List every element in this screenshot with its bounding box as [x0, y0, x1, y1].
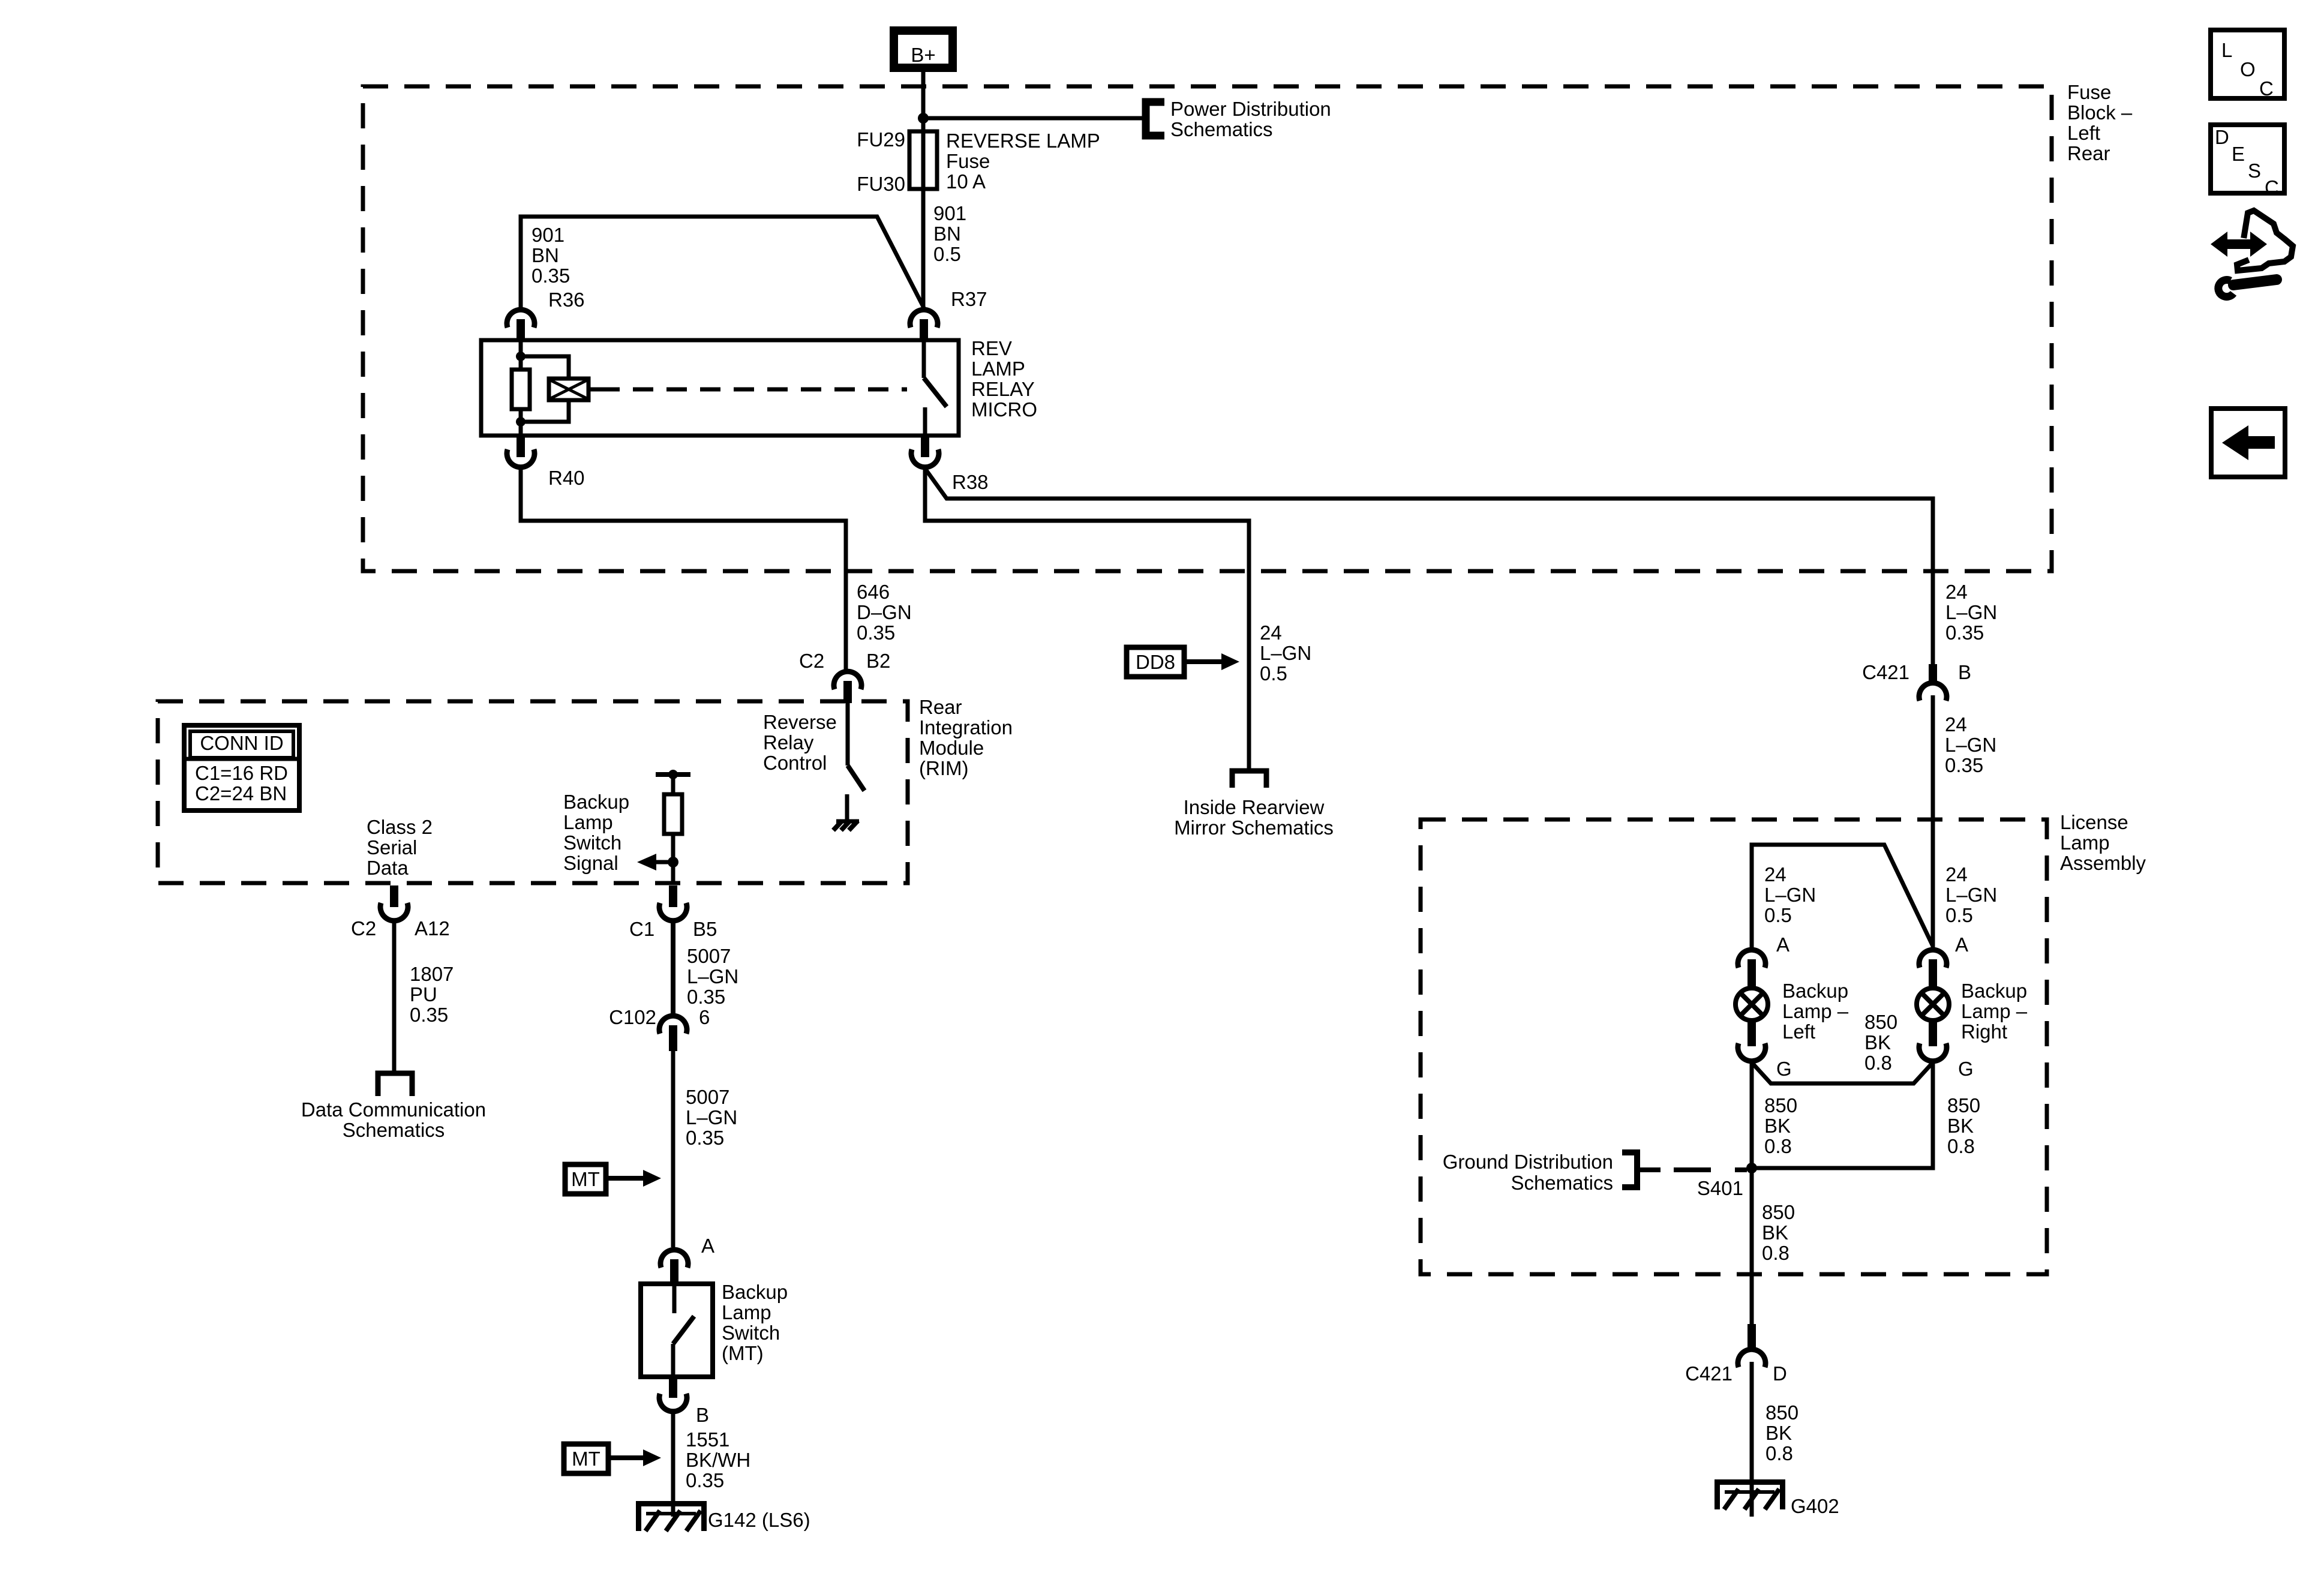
svg-text:B5: B5	[693, 918, 717, 940]
icon LOC	[2211, 30, 2284, 100]
svg-text:0.8: 0.8	[1762, 1242, 1789, 1264]
svg-text:D: D	[1773, 1362, 1787, 1385]
connector C1 B5	[659, 885, 687, 921]
svg-text:L–GN: L–GN	[1945, 601, 1997, 623]
svg-text:A: A	[1955, 933, 1968, 956]
svg-text:A: A	[701, 1235, 714, 1257]
label wire 1551 BK/WH 0.35	[686, 1428, 750, 1491]
svg-text:Fuse: Fuse	[2067, 81, 2111, 103]
svg-text:(MT): (MT)	[722, 1342, 764, 1364]
svg-text:Control: Control	[763, 752, 827, 774]
label pin A left lamp	[1776, 933, 1789, 956]
svg-text:0.35: 0.35	[1945, 754, 1983, 776]
label conn id	[200, 732, 283, 754]
svg-text:Lamp: Lamp	[563, 811, 613, 833]
label wire 5007 L-GN 0.35 pin 6	[687, 945, 738, 1028]
label wire 901 BN 0.35	[532, 224, 570, 287]
svg-text:MICRO: MICRO	[971, 398, 1037, 421]
svg-text:B: B	[696, 1404, 709, 1426]
svg-text:0.5: 0.5	[1945, 904, 1973, 926]
svg-text:L–GN: L–GN	[1260, 642, 1311, 664]
RIM chassis ground	[833, 821, 859, 830]
wire C421 B down to right lamp	[1931, 695, 1935, 947]
dashed link to S401	[1674, 1167, 1747, 1172]
RIM reverse relay control switch	[847, 703, 864, 821]
svg-text:0.8: 0.8	[1764, 1135, 1792, 1157]
svg-text:Block –: Block –	[2067, 101, 2133, 124]
svg-text:O: O	[2240, 58, 2256, 80]
connector C2 A12	[380, 885, 408, 921]
connector A backup lamp switch	[660, 1250, 688, 1284]
RIM pull-up wire upper	[671, 775, 675, 794]
wire B to ground G142	[671, 1413, 675, 1517]
off-page bracket inside rearview mirror	[1232, 771, 1266, 788]
label pin G left	[1776, 1058, 1792, 1080]
label wire 850 BK 0.8 right	[1947, 1094, 1980, 1157]
label backup lamp left	[1782, 980, 1849, 1043]
splice S401	[1746, 1163, 1757, 1173]
label R36	[548, 289, 585, 311]
svg-text:DD8: DD8	[1136, 651, 1175, 673]
svg-text:Power Distribution: Power Distribution	[1170, 98, 1331, 120]
label wire 850 BK 0.8 bottom	[1765, 1401, 1798, 1464]
label class 2 serial data	[367, 816, 433, 879]
svg-text:1551: 1551	[686, 1428, 729, 1451]
svg-text:B+: B+	[911, 44, 935, 66]
svg-text:REV: REV	[971, 337, 1012, 359]
svg-text:Lamp –: Lamp –	[1961, 1000, 2028, 1022]
svg-text:Left: Left	[2067, 122, 2100, 144]
label wire 24 L-GN 0.5 left	[1764, 863, 1816, 926]
label wire 5007 L-GN 0.35	[686, 1086, 737, 1149]
svg-text:Switch: Switch	[563, 831, 621, 854]
svg-text:0.35: 0.35	[532, 265, 570, 287]
wire C421 D to ground G402	[1750, 1362, 1754, 1517]
label wire 850 BK 0.8 left	[1764, 1094, 1797, 1157]
junction dot at B+ feed	[918, 113, 929, 124]
connector R36	[507, 310, 535, 341]
svg-text:S401: S401	[1697, 1177, 1743, 1199]
label data communication schematics	[301, 1098, 486, 1141]
RIM pull-up rail bar	[656, 772, 690, 777]
svg-text:FU30: FU30	[857, 173, 905, 195]
svg-text:Schematics: Schematics	[1511, 1172, 1613, 1194]
svg-text:BK: BK	[1864, 1031, 1891, 1053]
svg-text:L–GN: L–GN	[686, 1106, 737, 1128]
icon vehicle outline	[2237, 211, 2293, 271]
connector C421 B	[1919, 664, 1947, 701]
svg-text:Backup: Backup	[722, 1281, 788, 1303]
label A12	[415, 917, 450, 939]
svg-text:Ground Distribution: Ground Distribution	[1443, 1151, 1613, 1173]
label C2 at A12	[351, 917, 376, 939]
label C421 D names	[1685, 1362, 1787, 1385]
svg-text:0.5: 0.5	[1764, 904, 1792, 926]
label wire 850 BK 0.8 splice	[1762, 1201, 1795, 1264]
label backup lamp switch signal	[563, 791, 629, 874]
svg-text:Inside Rearview: Inside Rearview	[1184, 796, 1325, 818]
reference box MT upper	[565, 1164, 661, 1194]
RIM signal junction dot	[668, 857, 678, 867]
off-page bracket data communication	[378, 1073, 412, 1096]
svg-text:Reverse: Reverse	[763, 711, 837, 733]
svg-text:Assembly: Assembly	[2060, 852, 2146, 874]
svg-text:Right: Right	[1961, 1020, 2007, 1043]
svg-text:L: L	[2221, 39, 2232, 61]
label REV LAMP RELAY MICRO	[971, 337, 1037, 421]
svg-text:E: E	[2232, 143, 2245, 165]
wire B5 to C102	[671, 922, 675, 1014]
icon DESC	[2211, 125, 2284, 199]
svg-text:Mirror Schematics: Mirror Schematics	[1174, 816, 1334, 839]
label pin B	[696, 1404, 709, 1426]
label G142 (LS6)	[708, 1509, 810, 1531]
svg-text:A: A	[1776, 933, 1789, 956]
svg-text:901: 901	[532, 224, 565, 246]
connector G left lamp	[1738, 1021, 1765, 1061]
svg-text:L–GN: L–GN	[1764, 884, 1816, 906]
svg-text:G142 (LS6): G142 (LS6)	[708, 1509, 810, 1531]
fuse block - left rear dashed box	[363, 86, 2052, 571]
svg-text:C: C	[2259, 77, 2274, 100]
svg-text:Switch: Switch	[722, 1322, 780, 1344]
relay coil branch wires	[521, 356, 569, 422]
off-page bracket power distribution	[1146, 102, 1164, 136]
label fuse block - left rear	[2067, 81, 2133, 164]
svg-text:A12: A12	[415, 917, 450, 939]
rear integration module dashed box	[158, 701, 908, 883]
svg-text:R38: R38	[952, 471, 989, 493]
ground G402	[1715, 1479, 1785, 1509]
svg-text:Backup: Backup	[563, 791, 629, 813]
label R40	[548, 467, 585, 489]
svg-text:0.35: 0.35	[687, 986, 725, 1008]
svg-text:850: 850	[1764, 1094, 1797, 1116]
svg-text:MT: MT	[572, 1448, 600, 1470]
svg-text:850: 850	[1864, 1011, 1897, 1033]
svg-text:C1=16 RD: C1=16 RD	[195, 762, 288, 784]
label rear integration module (RIM)	[919, 696, 1013, 779]
connector R37	[910, 310, 938, 341]
svg-text:C2=24 BN: C2=24 BN	[195, 782, 287, 804]
label C421 B names	[1862, 661, 1971, 683]
svg-text:850: 850	[1762, 1201, 1795, 1223]
svg-text:Left: Left	[1782, 1020, 1815, 1043]
svg-text:Class 2: Class 2	[367, 816, 433, 838]
svg-text:MT: MT	[571, 1168, 600, 1190]
svg-text:0.35: 0.35	[410, 1004, 448, 1026]
svg-text:0.35: 0.35	[686, 1127, 724, 1149]
label wire 24 L-GN 0.35 upper	[1945, 581, 1997, 644]
svg-text:C421: C421	[1862, 661, 1909, 683]
wire R38 to rearview mirror feed	[925, 469, 1249, 769]
label wire 850 BK 0.8 mid	[1864, 1011, 1897, 1074]
label license lamp assembly	[2060, 811, 2146, 874]
license lamp assembly dashed box	[1421, 819, 2047, 1274]
svg-text:R40: R40	[548, 467, 585, 489]
connector B backup lamp switch	[659, 1377, 687, 1412]
label B5	[693, 918, 717, 940]
svg-text:Rear: Rear	[2067, 142, 2110, 164]
svg-text:S: S	[2248, 160, 2261, 182]
connector C421 D	[1738, 1324, 1765, 1367]
icon wrench	[2218, 280, 2277, 297]
label power distribution schematics	[1170, 98, 1331, 140]
svg-text:LAMP: LAMP	[971, 358, 1025, 380]
label pin A right lamp	[1955, 933, 1968, 956]
relay resistor	[512, 370, 530, 409]
svg-text:0.5: 0.5	[1260, 662, 1287, 685]
svg-text:24: 24	[1945, 863, 1968, 885]
label wire 24 L-GN 0.5 right	[1945, 863, 1997, 926]
backup lamp switch box	[641, 1284, 713, 1377]
relay internal wire from R36 pin	[519, 340, 523, 370]
svg-text:Lamp: Lamp	[722, 1301, 771, 1323]
RIM pull-up resistor	[664, 794, 682, 834]
backup lamp right	[1917, 988, 1949, 1020]
connector C2 B2	[834, 671, 861, 703]
svg-text:C2: C2	[799, 650, 824, 672]
label pin G right	[1958, 1058, 1974, 1080]
label FU29	[857, 128, 905, 151]
wire left lamp ground drop	[1750, 1062, 1754, 1168]
svg-text:B2: B2	[866, 650, 890, 672]
svg-text:D: D	[2215, 126, 2229, 148]
relay internal wire resistor to bottom	[519, 409, 523, 436]
backup lamp left	[1736, 988, 1768, 1020]
svg-text:Serial: Serial	[367, 836, 417, 858]
svg-text:(RIM): (RIM)	[919, 757, 968, 779]
wire branch to left backup lamp	[1752, 845, 1933, 947]
conn id table	[184, 725, 299, 810]
svg-text:L–GN: L–GN	[1945, 884, 1997, 906]
svg-text:0.8: 0.8	[1765, 1442, 1793, 1464]
connector A left lamp	[1738, 950, 1765, 987]
svg-text:0.8: 0.8	[1947, 1135, 1975, 1157]
svg-text:C: C	[2265, 176, 2279, 199]
svg-text:6: 6	[699, 1006, 710, 1028]
label c2=24 bn	[195, 782, 287, 804]
wire R40 to connector B2	[521, 469, 846, 670]
svg-text:5007: 5007	[687, 945, 731, 967]
label backup lamp switch (MT)	[722, 1281, 788, 1364]
icon vehicle double arrow	[2211, 232, 2267, 257]
fuse FU29/FU30 REVERSE LAMP 10A	[909, 131, 937, 189]
label wire 646 D-GN 0.35	[857, 581, 912, 644]
svg-text:646: 646	[857, 581, 890, 603]
wire lamp ground tie	[1752, 1062, 1933, 1083]
svg-text:24: 24	[1945, 581, 1968, 603]
connector C102	[659, 1016, 687, 1051]
label ground distribution schematics	[1443, 1151, 1613, 1194]
wire C102 to switch pin A	[671, 1051, 675, 1247]
svg-text:0.35: 0.35	[857, 622, 895, 644]
label R37	[951, 288, 987, 310]
svg-text:0.35: 0.35	[1945, 622, 1984, 644]
label R38	[952, 471, 989, 493]
label pin A	[701, 1235, 714, 1257]
svg-text:BK: BK	[1764, 1115, 1791, 1137]
svg-text:D–GN: D–GN	[857, 601, 912, 623]
connector R38	[911, 436, 939, 467]
svg-text:PU: PU	[410, 983, 437, 1005]
svg-text:G: G	[1958, 1058, 1974, 1080]
svg-text:G: G	[1776, 1058, 1792, 1080]
label reverse lamp fuse 10 A	[946, 130, 1100, 193]
relay box REV LAMP RELAY MICRO	[481, 340, 959, 436]
relay internal junction dot bottom	[516, 417, 526, 427]
svg-text:Rear: Rear	[919, 696, 962, 718]
svg-text:0.8: 0.8	[1864, 1052, 1892, 1074]
svg-text:901: 901	[933, 202, 966, 224]
wire fuse to relay R37	[921, 189, 926, 308]
svg-text:10 A: 10 A	[946, 170, 986, 193]
wire A12 to data communication	[392, 922, 397, 1073]
svg-text:L–GN: L–GN	[1945, 734, 1996, 756]
wire branch to R36	[521, 217, 924, 308]
svg-text:Backup: Backup	[1782, 980, 1848, 1002]
svg-text:5007: 5007	[686, 1086, 729, 1108]
icon back arrow	[2211, 409, 2285, 477]
label C2 at B2	[799, 650, 824, 672]
wire B+ down to fuse	[921, 72, 926, 133]
svg-text:24: 24	[1260, 622, 1282, 644]
svg-text:BN: BN	[933, 223, 961, 245]
label B2	[866, 650, 890, 672]
svg-text:REVERSE LAMP: REVERSE LAMP	[946, 130, 1100, 152]
svg-text:1807: 1807	[410, 963, 454, 985]
label inside rearview mirror schematics	[1174, 796, 1334, 839]
svg-text:R37: R37	[951, 288, 987, 310]
reference box MT lower	[564, 1444, 661, 1473]
reference box DD8	[1127, 647, 1239, 677]
label FU30	[857, 173, 905, 195]
label C1	[629, 918, 654, 940]
connector G right lamp	[1919, 1021, 1947, 1061]
svg-text:Signal: Signal	[563, 852, 618, 874]
svg-text:C102: C102	[609, 1006, 656, 1028]
connector R40	[507, 436, 535, 467]
svg-text:Module: Module	[919, 737, 984, 759]
svg-text:CONN ID: CONN ID	[200, 732, 283, 754]
svg-text:850: 850	[1765, 1401, 1798, 1424]
svg-text:0.5: 0.5	[933, 243, 961, 265]
RIM signal arrow	[637, 854, 673, 870]
RIM pull-up junction dot top	[668, 770, 678, 779]
svg-text:Lamp –: Lamp –	[1782, 1000, 1849, 1022]
svg-text:BK: BK	[1765, 1422, 1792, 1444]
relay internal junction dot top	[516, 352, 526, 361]
svg-text:Integration: Integration	[919, 716, 1013, 739]
wire R38 to license lamp feed	[925, 469, 1933, 664]
svg-text:FU29: FU29	[857, 128, 905, 151]
off-page bracket ground distribution	[1622, 1152, 1661, 1187]
svg-text:BK/WH: BK/WH	[686, 1449, 750, 1471]
label backup lamp right	[1961, 980, 2028, 1043]
svg-text:B: B	[1958, 661, 1971, 683]
label wire 901 BN 0.5	[933, 202, 966, 265]
svg-text:L–GN: L–GN	[687, 965, 738, 987]
svg-text:BN: BN	[532, 244, 559, 266]
svg-text:Data Communication: Data Communication	[301, 1098, 486, 1121]
svg-text:RELAY: RELAY	[971, 378, 1035, 400]
connector A right lamp	[1919, 950, 1947, 987]
svg-text:Schematics: Schematics	[343, 1119, 445, 1141]
svg-text:Schematics: Schematics	[1170, 118, 1273, 140]
svg-text:Lamp: Lamp	[2060, 831, 2110, 854]
label S401	[1697, 1177, 1743, 1199]
svg-text:24: 24	[1945, 713, 1967, 736]
svg-text:C1: C1	[629, 918, 654, 940]
label wire 24 L-GN 0.35 lower	[1945, 713, 1996, 776]
svg-text:R36: R36	[548, 289, 585, 311]
svg-text:G402: G402	[1791, 1495, 1839, 1517]
label reverse relay control	[763, 711, 837, 774]
battery terminal B+	[894, 31, 953, 68]
svg-text:Relay: Relay	[763, 731, 814, 754]
svg-text:850: 850	[1947, 1094, 1980, 1116]
svg-text:C2: C2	[351, 917, 376, 939]
svg-text:BK: BK	[1762, 1221, 1788, 1244]
label C102	[609, 1006, 656, 1028]
relay actuation dashed link	[599, 388, 907, 392]
svg-text:24: 24	[1764, 863, 1786, 885]
svg-text:Data: Data	[367, 857, 409, 879]
RIM pull-up wire lower	[671, 834, 675, 884]
svg-text:Backup: Backup	[1961, 980, 2027, 1002]
svg-text:0.35: 0.35	[686, 1469, 724, 1491]
label c1=16 rd	[195, 762, 288, 784]
svg-text:BK: BK	[1947, 1115, 1974, 1137]
wire right lamp ground drop	[1752, 1062, 1933, 1168]
svg-text:Fuse: Fuse	[946, 150, 990, 172]
wire S401 to C421 D	[1750, 1168, 1754, 1324]
svg-text:C421: C421	[1685, 1362, 1733, 1385]
ground G142	[636, 1501, 707, 1531]
wire to power distribution reference	[926, 116, 1143, 121]
relay switch	[924, 340, 947, 436]
relay coil	[549, 379, 599, 400]
label wire 24 L-GN 0.5 mirror	[1260, 622, 1311, 685]
label wire 1807 PU 0.35	[410, 963, 454, 1026]
svg-text:License: License	[2060, 811, 2128, 833]
label G402	[1791, 1495, 1839, 1517]
